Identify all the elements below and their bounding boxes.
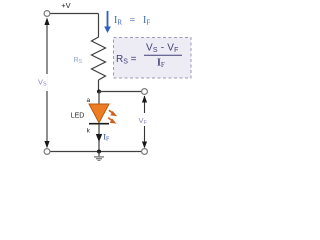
node bottom right	[142, 149, 148, 155]
wire top rail	[50, 13, 99, 15]
arrow VF top	[142, 96, 147, 103]
arrow VF bottom	[142, 142, 147, 149]
label IR = IF	[114, 15, 150, 27]
wire LED anode lead	[98, 92, 100, 105]
LED D1 triangle	[89, 104, 109, 123]
arrow IF on cathode wire	[96, 134, 102, 142]
ground	[94, 152, 104, 161]
wire junction to VF node	[99, 91, 142, 93]
wire top-right vertical drop	[98, 14, 100, 38]
LED light arrow 1	[109, 110, 117, 116]
node ground junction	[97, 150, 101, 154]
wire VF measurement line	[144, 96, 146, 148]
svg-text:IF: IF	[143, 15, 150, 27]
arrow VS bottom	[44, 141, 49, 148]
fraction bar	[144, 54, 182, 56]
svg-text:IR: IR	[114, 15, 122, 27]
node +V terminal	[44, 11, 50, 17]
arrow IR (blue current arrow)	[104, 11, 111, 33]
arrow VS top	[44, 18, 49, 26]
svg-text:a: a	[86, 97, 90, 104]
svg-text:IF: IF	[103, 132, 110, 143]
label VF	[137, 113, 150, 126]
wire bottom rail	[50, 151, 142, 153]
label VS	[36, 74, 48, 91]
svg-text:k: k	[87, 128, 91, 135]
wire VS measurement line	[46, 19, 48, 147]
svg-text:+V: +V	[61, 1, 70, 10]
node bottom left	[44, 149, 50, 155]
node junction resistor/LED/VF	[97, 90, 101, 94]
wire resistor bottom lead	[98, 80, 100, 92]
LED cathode bar	[89, 123, 109, 125]
svg-text:LED: LED	[71, 113, 85, 120]
formula box	[114, 38, 192, 79]
resistor RS	[92, 37, 106, 80]
node VF top	[142, 89, 148, 95]
LED light arrow 2	[108, 118, 116, 124]
svg-text:VS - VF: VS - VF	[146, 43, 179, 55]
svg-text:RS: RS	[74, 57, 83, 65]
wire LED cathode to rail	[98, 124, 100, 152]
svg-text:=: =	[130, 15, 136, 26]
